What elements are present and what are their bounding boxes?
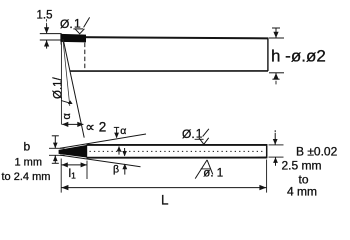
bevel land (black bar) (60, 34, 86, 43)
dimension 1.5: down arrow (46, 19, 48, 24)
bevel face slant line (63, 39, 84, 138)
angle arc alpha (61, 101, 72, 104)
svg-text:β: β (113, 163, 119, 175)
dimension L: left extension line (60, 159, 62, 193)
svg-text:α: α (120, 125, 126, 137)
svg-text:2.5 mm: 2.5 mm (282, 159, 322, 173)
dimension L: arrow line (62, 187, 267, 189)
dimension b: up arrow (54, 156, 56, 164)
svg-text:1 mm: 1 mm (15, 156, 43, 168)
svg-text:1.5: 1.5 (37, 10, 53, 22)
vertical extension line below left edge (60, 44, 62, 125)
body top edge (87, 144, 267, 146)
dotted centerline (90, 150, 265, 152)
arc arrowhead (68, 100, 73, 104)
flag slash (203, 129, 209, 137)
dimension h: upper extension line (269, 37, 284, 39)
body bottom edge (87, 157, 267, 159)
blade body rectangle: bottom edge (70, 70, 268, 72)
inner down arrow at bottom edge (124, 148, 126, 156)
dimension 1.5: upper extension line (40, 33, 62, 35)
svg-text:Ø.: Ø. (182, 127, 195, 141)
dimension B: down arrow (274, 130, 276, 132)
dimension l1: right extension line (86, 161, 88, 179)
inner up arrow at top edge (118, 147, 120, 155)
svg-text:∝ 2: ∝ 2 (85, 119, 106, 134)
svg-text:to 2.4 mm: to 2.4 mm (2, 171, 51, 183)
angle beta arrow (124, 164, 126, 175)
dimension h: down arrow with tail tick (272, 27, 280, 29)
dimension b: down arrow (52, 135, 59, 137)
dimension b: upper extension line (49, 147, 65, 149)
svg-text:4 mm: 4 mm (287, 185, 317, 199)
blade body rectangle: top edge (61, 37, 269, 38)
dimension l1: arrow line (62, 164, 87, 166)
dimension 1.5: lower extension line (40, 39, 62, 41)
hidden bevel edge (dashed vertical) (84, 43, 86, 71)
flag slash (84, 17, 90, 27)
dimension h: lower extension line (269, 72, 284, 74)
svg-text:Ø.1/: Ø.1/ (53, 76, 65, 99)
grind top slant line (60, 134, 146, 148)
surface callout below body: slash + A-symbol (195, 160, 207, 179)
dimension B: upper extension line (269, 144, 284, 146)
dimension 1.5: up arrow (46, 40, 48, 48)
check V symbol on top edge (199, 138, 209, 145)
blade body rectangle: left edge (60, 34, 62, 45)
svg-text:1: 1 (74, 16, 81, 30)
svg-text:b: b (24, 139, 31, 153)
dimension h: up arrow with tail tick (275, 73, 277, 79)
check V symbol (75, 29, 84, 34)
grind bottom slant line (60, 155, 141, 167)
svg-text:h -ø.ø2: h -ø.ø2 (271, 47, 326, 66)
bevel axis dash-dot line (63, 39, 70, 106)
dimension B: up arrow (275, 157, 277, 166)
dimension B: lower extension line (269, 156, 284, 158)
svg-text:α: α (61, 113, 73, 120)
tapered tip (black) (59, 145, 88, 158)
body right edge (266, 144, 268, 158)
dimension alpha2: arrow line (62, 123, 83, 125)
svg-text:Ø.: Ø. (60, 17, 73, 31)
svg-text:ø. 1: ø. 1 (203, 168, 223, 180)
blade body rectangle: right edge (267, 38, 269, 71)
angle alpha arrow (114, 126, 119, 128)
underline of 1 (73, 28, 83, 30)
dimension b: lower extension line (49, 154, 65, 156)
dimension L: right extension line (266, 160, 268, 193)
svg-text:B ±0.02: B ±0.02 (296, 144, 338, 158)
svg-text:L: L (161, 193, 169, 208)
